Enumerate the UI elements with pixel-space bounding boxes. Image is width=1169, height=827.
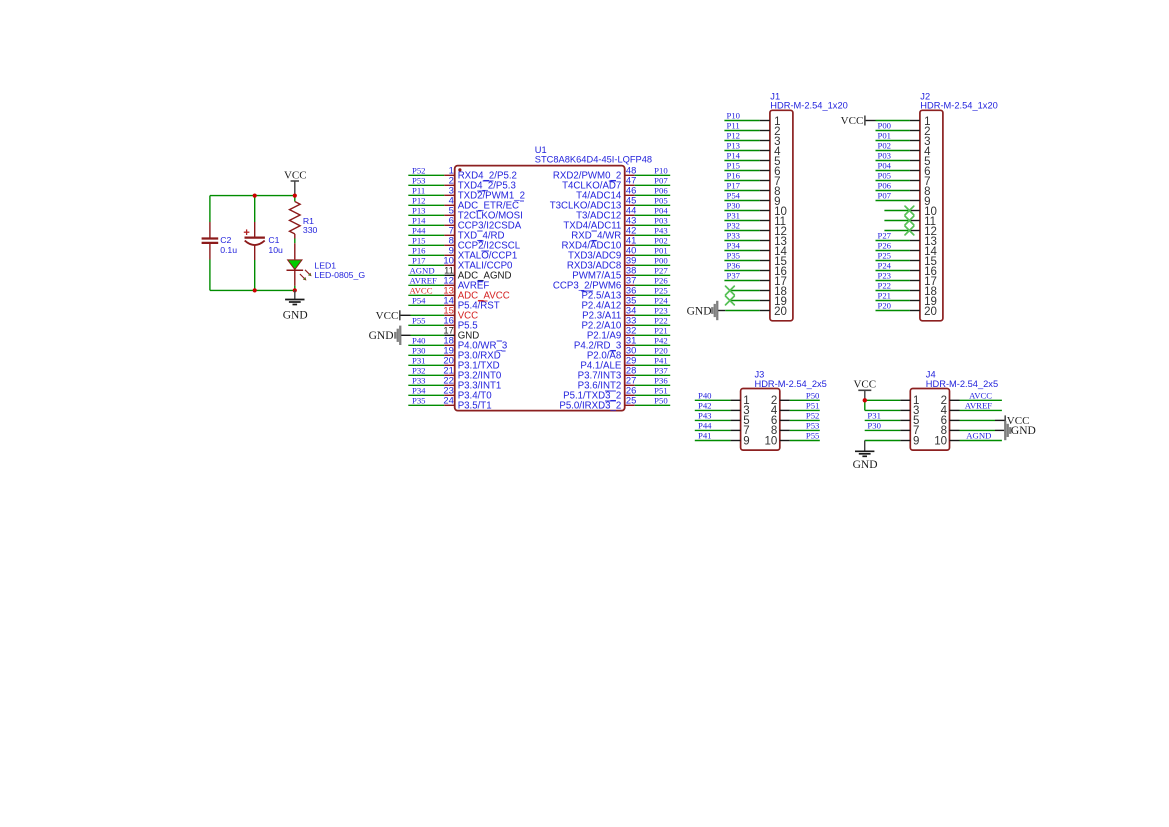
- svg-text:P31: P31: [867, 411, 881, 421]
- svg-text:P24: P24: [878, 261, 892, 271]
- svg-text:P43: P43: [654, 225, 668, 235]
- svg-text:P31: P31: [412, 355, 426, 365]
- svg-text:0.1u: 0.1u: [220, 245, 237, 255]
- svg-text:P42: P42: [654, 335, 668, 345]
- svg-text:P36: P36: [654, 375, 668, 385]
- svg-text:P21: P21: [654, 325, 668, 335]
- svg-text:P44: P44: [412, 225, 426, 235]
- svg-text:VCC: VCC: [841, 115, 864, 127]
- svg-text:P30: P30: [727, 201, 741, 211]
- svg-text:20: 20: [774, 306, 787, 318]
- svg-text:AVREF: AVREF: [410, 275, 438, 285]
- svg-text:AGND: AGND: [410, 265, 435, 275]
- svg-text:25: 25: [626, 394, 636, 405]
- svg-text:P42: P42: [698, 401, 712, 411]
- svg-text:AVREF: AVREF: [965, 401, 993, 411]
- svg-text:P20: P20: [878, 301, 892, 311]
- svg-text:P34: P34: [412, 385, 426, 395]
- svg-text:AVCC: AVCC: [969, 390, 992, 400]
- svg-text:P12: P12: [412, 195, 426, 205]
- svg-text:P52: P52: [412, 165, 426, 175]
- svg-text:P15: P15: [727, 161, 741, 171]
- svg-text:P36: P36: [727, 261, 741, 271]
- svg-text:P52: P52: [806, 411, 820, 421]
- svg-text:P06: P06: [878, 181, 892, 191]
- svg-text:P51: P51: [654, 385, 668, 395]
- svg-text:P00: P00: [654, 255, 668, 265]
- svg-text:VCC: VCC: [853, 378, 876, 390]
- svg-text:P14: P14: [727, 151, 741, 161]
- svg-text:P40: P40: [412, 335, 426, 345]
- svg-text:P05: P05: [654, 195, 668, 205]
- svg-text:P12: P12: [727, 131, 741, 141]
- svg-text:P17: P17: [412, 255, 426, 265]
- svg-text:P20: P20: [654, 345, 668, 355]
- svg-text:AVCC: AVCC: [410, 285, 433, 295]
- svg-text:P3.5/T1: P3.5/T1: [458, 401, 492, 412]
- svg-text:10: 10: [765, 435, 778, 447]
- svg-text:VCC: VCC: [284, 170, 307, 182]
- svg-text:P02: P02: [654, 235, 668, 245]
- svg-text:P24: P24: [654, 295, 668, 305]
- svg-text:P32: P32: [412, 365, 426, 375]
- svg-text:P51: P51: [806, 401, 820, 411]
- svg-text:P50: P50: [806, 390, 820, 400]
- svg-text:P03: P03: [654, 215, 668, 225]
- svg-text:P05: P05: [878, 171, 892, 181]
- svg-text:P16: P16: [727, 171, 741, 181]
- svg-text:GND: GND: [853, 459, 878, 471]
- svg-text:20: 20: [924, 306, 937, 318]
- svg-text:P07: P07: [878, 191, 892, 201]
- svg-text:P04: P04: [878, 161, 892, 171]
- svg-text:P04: P04: [654, 205, 668, 215]
- svg-text:HDR-M-2.54_2x5: HDR-M-2.54_2x5: [755, 379, 827, 389]
- svg-text:P31: P31: [727, 211, 741, 221]
- svg-text:24: 24: [443, 394, 453, 405]
- svg-text:P13: P13: [727, 141, 741, 151]
- svg-text:P55: P55: [806, 431, 820, 441]
- svg-text:P37: P37: [727, 271, 741, 281]
- svg-text:P32: P32: [727, 221, 741, 231]
- svg-text:P16: P16: [412, 245, 426, 255]
- svg-text:P37: P37: [654, 365, 668, 375]
- svg-text:P10: P10: [727, 111, 741, 121]
- svg-text:P23: P23: [878, 271, 892, 281]
- svg-text:P53: P53: [806, 421, 820, 431]
- svg-text:P15: P15: [412, 235, 426, 245]
- svg-text:P00: P00: [878, 121, 892, 131]
- svg-text:P22: P22: [654, 315, 668, 325]
- svg-text:P11: P11: [727, 121, 740, 131]
- svg-text:P44: P44: [698, 421, 712, 431]
- svg-text:P54: P54: [412, 295, 426, 305]
- svg-text:HDR-M-2.54_2x5: HDR-M-2.54_2x5: [926, 379, 998, 389]
- svg-text:P23: P23: [654, 305, 668, 315]
- svg-text:C1: C1: [268, 235, 279, 245]
- svg-text:P02: P02: [878, 141, 892, 151]
- svg-text:GND: GND: [369, 330, 394, 342]
- svg-text:10u: 10u: [268, 245, 283, 255]
- svg-text:P14: P14: [412, 215, 426, 225]
- svg-text:HDR-M-2.54_1x20: HDR-M-2.54_1x20: [770, 101, 848, 111]
- svg-text:P01: P01: [878, 131, 892, 141]
- svg-text:HDR-M-2.54_1x20: HDR-M-2.54_1x20: [920, 101, 998, 111]
- svg-text:9: 9: [743, 435, 749, 447]
- svg-text:P27: P27: [878, 231, 892, 241]
- svg-text:AGND: AGND: [966, 431, 991, 441]
- svg-text:330: 330: [303, 225, 318, 235]
- svg-text:P34: P34: [727, 241, 741, 251]
- svg-text:9: 9: [913, 435, 919, 447]
- svg-text:P21: P21: [878, 291, 892, 301]
- svg-text:GND: GND: [1011, 425, 1036, 437]
- svg-text:P17: P17: [727, 181, 741, 191]
- svg-text:P35: P35: [412, 395, 426, 405]
- svg-text:P30: P30: [412, 345, 426, 355]
- svg-text:P10: P10: [654, 165, 668, 175]
- svg-text:GND: GND: [283, 310, 308, 322]
- svg-text:P43: P43: [698, 411, 712, 421]
- svg-text:P07: P07: [654, 175, 668, 185]
- svg-text:P06: P06: [654, 185, 668, 195]
- svg-text:P40: P40: [698, 390, 712, 400]
- svg-text:P03: P03: [878, 151, 892, 161]
- svg-text:P41: P41: [654, 355, 668, 365]
- svg-text:P5.0/IRXD3_2: P5.0/IRXD3_2: [559, 401, 621, 412]
- svg-text:GND: GND: [687, 305, 712, 317]
- svg-text:C2: C2: [220, 235, 231, 245]
- svg-text:P11: P11: [412, 185, 425, 195]
- svg-text:LED1: LED1: [314, 260, 336, 270]
- svg-text:STC8A8K64D4-45I-LQFP48: STC8A8K64D4-45I-LQFP48: [535, 154, 652, 164]
- svg-text:P33: P33: [412, 375, 426, 385]
- svg-text:LED-0805_G: LED-0805_G: [314, 270, 365, 280]
- svg-text:P55: P55: [412, 315, 426, 325]
- svg-text:P41: P41: [698, 431, 712, 441]
- svg-text:P26: P26: [654, 275, 668, 285]
- svg-text:P35: P35: [727, 251, 741, 261]
- svg-text:P22: P22: [878, 281, 892, 291]
- svg-text:10: 10: [934, 435, 947, 447]
- svg-text:P26: P26: [878, 241, 892, 251]
- svg-text:P54: P54: [727, 191, 741, 201]
- svg-text:P50: P50: [654, 395, 668, 405]
- svg-text:P53: P53: [412, 175, 426, 185]
- svg-text:P30: P30: [867, 421, 881, 431]
- svg-text:P25: P25: [654, 285, 668, 295]
- svg-text:VCC: VCC: [376, 310, 399, 322]
- svg-text:P01: P01: [654, 245, 668, 255]
- svg-text:P33: P33: [727, 231, 741, 241]
- svg-text:P25: P25: [878, 251, 892, 261]
- svg-text:P13: P13: [412, 205, 426, 215]
- svg-text:P27: P27: [654, 265, 668, 275]
